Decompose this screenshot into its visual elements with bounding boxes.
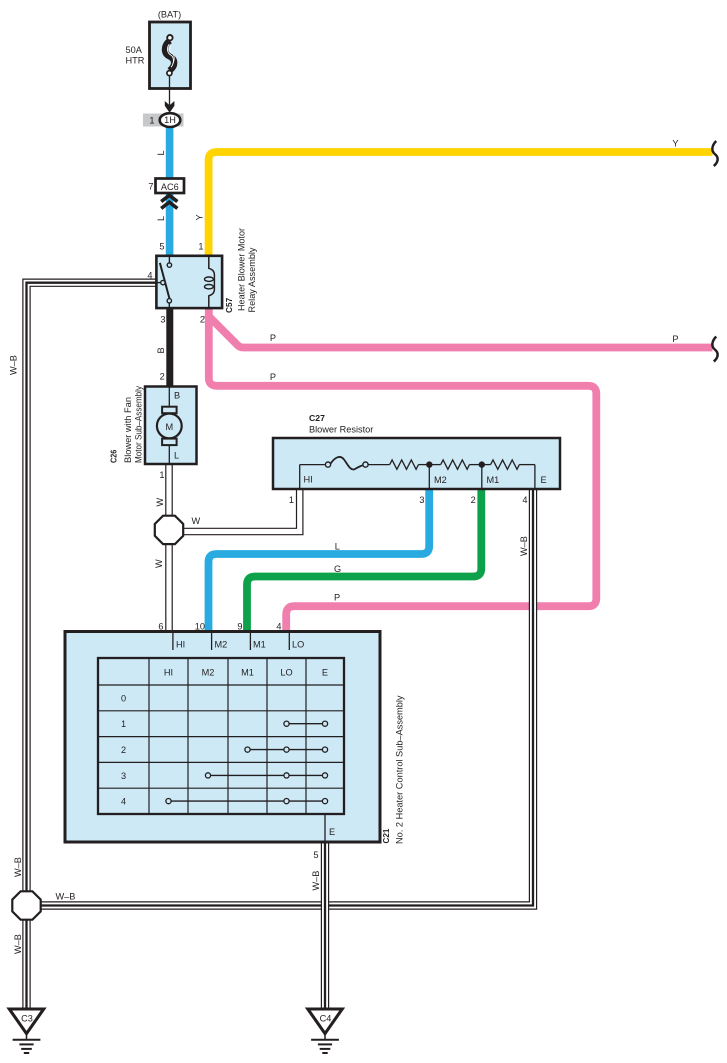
ground C4 bbox=[308, 1009, 342, 1053]
wire W white octagon to resistor HI pin 1 bbox=[183, 487, 303, 535]
svg-text:P: P bbox=[672, 334, 678, 344]
control C21 box bbox=[65, 632, 380, 843]
svg-text:P: P bbox=[270, 333, 276, 343]
switch row 1 contacts LO-E bbox=[284, 721, 328, 726]
svg-text:2: 2 bbox=[160, 372, 165, 382]
label M2 resistor bbox=[434, 475, 447, 485]
wire W-B octagon joint down to ground C3 bbox=[23, 920, 30, 1009]
relay C57 box bbox=[156, 256, 222, 308]
svg-text:G: G bbox=[334, 564, 341, 574]
svg-text:Y: Y bbox=[195, 214, 205, 220]
label 5 relay pin bbox=[159, 242, 164, 252]
label G on green wire bbox=[334, 564, 341, 574]
svg-text:M1: M1 bbox=[241, 668, 254, 678]
svg-text:L: L bbox=[156, 216, 166, 221]
label 4 resistor pin bbox=[522, 495, 527, 505]
svg-text:W–B: W–B bbox=[519, 536, 529, 556]
svg-text:W–B: W–B bbox=[56, 892, 76, 902]
label W right of octagon bbox=[192, 516, 201, 526]
svg-text:HI: HI bbox=[304, 475, 313, 485]
svg-text:L: L bbox=[174, 451, 179, 461]
label 9 control pin bbox=[237, 622, 242, 632]
label L vertical upper bbox=[156, 150, 166, 155]
svg-text:L: L bbox=[156, 150, 166, 155]
svg-text:Blower with Fan: Blower with Fan bbox=[123, 397, 133, 463]
wire W-B from control E pin 5 down to ground C4 bbox=[321, 840, 328, 1009]
label Y on yellow wire right bbox=[672, 139, 678, 149]
svg-text:W: W bbox=[192, 516, 201, 526]
label P on pink branch 1 bbox=[270, 333, 276, 343]
switch row 2 contacts M1-LO-E bbox=[245, 747, 328, 752]
label 1 connector pin bbox=[149, 116, 154, 126]
label Heater Blower Motor Relay Assembly bbox=[237, 228, 258, 313]
label LO control lead bbox=[292, 640, 304, 650]
svg-text:5: 5 bbox=[313, 850, 318, 860]
label 4 relay pin bbox=[147, 271, 152, 281]
label W-B vertical left top bbox=[9, 355, 19, 375]
wire W-B from resistor E down then left to octagon joint bbox=[41, 487, 537, 909]
svg-text:AC6: AC6 bbox=[161, 182, 179, 192]
svg-text:E: E bbox=[322, 668, 328, 678]
svg-text:2: 2 bbox=[121, 745, 126, 755]
connector 1H oval bbox=[160, 113, 181, 127]
svg-text:B: B bbox=[174, 390, 180, 400]
svg-text:5: 5 bbox=[159, 242, 164, 252]
ground C3 bbox=[9, 1009, 43, 1053]
label W-B vertical on C4 wire bbox=[311, 871, 321, 891]
motor symbol M bbox=[157, 387, 182, 465]
svg-text:C4: C4 bbox=[320, 1013, 332, 1023]
label 3 resistor pin bbox=[419, 495, 424, 505]
svg-text:W–B: W–B bbox=[9, 355, 19, 375]
svg-text:P: P bbox=[270, 372, 276, 382]
svg-text:HI: HI bbox=[176, 640, 185, 650]
label P on pink wire right bbox=[672, 334, 678, 344]
label M1 control lead bbox=[253, 640, 266, 650]
connector highlight gray bbox=[143, 114, 184, 127]
table row labels 0-4 bbox=[121, 694, 126, 807]
label E control lead bbox=[329, 827, 335, 837]
switch row 4 contacts HI-LO-E bbox=[166, 799, 328, 804]
label 2 relay pin bbox=[200, 315, 205, 325]
svg-text:4: 4 bbox=[522, 495, 527, 505]
switch row 3 contacts M2-LO-E bbox=[205, 773, 327, 778]
svg-text:Motor Sub–Assembly: Motor Sub–Assembly bbox=[134, 386, 144, 463]
svg-text:2: 2 bbox=[471, 495, 476, 505]
svg-text:3: 3 bbox=[419, 495, 424, 505]
svg-text:LO: LO bbox=[280, 668, 292, 678]
svg-text:No. 2 Heater Control Sub–Assem: No. 2 Heater Control Sub–Assembly bbox=[395, 695, 405, 844]
svg-text:M2: M2 bbox=[215, 640, 228, 650]
control top leads bbox=[173, 633, 289, 650]
svg-text:7: 7 bbox=[148, 182, 153, 192]
label C27 title bbox=[309, 413, 373, 434]
svg-text:M1: M1 bbox=[253, 640, 266, 650]
svg-text:(BAT): (BAT) bbox=[158, 10, 181, 20]
svg-text:W–B: W–B bbox=[311, 871, 321, 891]
svg-text:C21: C21 bbox=[381, 828, 391, 843]
wire fuse to connector 1H bbox=[169, 76, 171, 105]
label P on pink wire to LO bbox=[334, 593, 340, 603]
wire W white motor pin 1 to octagon connector bbox=[166, 462, 172, 516]
octagon connector white wire junction bbox=[155, 516, 183, 544]
svg-text:LO: LO bbox=[292, 640, 304, 650]
svg-text:C26: C26 bbox=[109, 450, 119, 463]
svg-text:W–B: W–B bbox=[13, 934, 23, 954]
svg-text:W–B: W–B bbox=[13, 857, 23, 877]
label 1 relay pin bbox=[198, 242, 203, 252]
svg-text:3: 3 bbox=[160, 315, 165, 325]
label 10 control pin bbox=[195, 622, 205, 632]
wire continuation squiggle pink bbox=[712, 337, 717, 362]
label W vertical below octagon bbox=[154, 559, 164, 568]
svg-text:M: M bbox=[165, 422, 173, 432]
label L motor lead bbox=[174, 451, 179, 461]
svg-text:1: 1 bbox=[289, 495, 294, 505]
arrow into connector 1H bbox=[165, 101, 175, 113]
svg-text:1H: 1H bbox=[164, 115, 176, 125]
label W-B vertical below octagon bbox=[13, 934, 23, 954]
wire continuation squiggle yellow bbox=[712, 141, 717, 166]
label M2 control lead bbox=[215, 640, 228, 650]
wire G green from resistor M1 to control M1 bbox=[247, 487, 481, 632]
svg-text:2: 2 bbox=[200, 315, 205, 325]
wire W white octagon to control HI pin 6 bbox=[166, 545, 172, 633]
label M1 resistor bbox=[487, 475, 500, 485]
wire L blue from resistor M2 to control M2 bbox=[209, 487, 430, 632]
label 3 relay pin bbox=[160, 315, 165, 325]
relay switch contacts bbox=[156, 256, 171, 308]
label L on blue wire bbox=[335, 542, 340, 552]
wire W-B from relay pin 4 down left side to octagon joint bbox=[23, 279, 156, 891]
label L vertical lower bbox=[156, 216, 166, 221]
label B motor lead bbox=[174, 390, 180, 400]
connector AC6 box bbox=[156, 179, 185, 194]
svg-text:E: E bbox=[541, 475, 547, 485]
label 2 resistor pin bbox=[471, 495, 476, 505]
svg-text:4: 4 bbox=[121, 797, 126, 807]
svg-text:1: 1 bbox=[159, 470, 164, 480]
resistor internal circuit bbox=[300, 457, 535, 489]
label W vertical above octagon bbox=[155, 498, 165, 507]
wire Y yellow from relay pin 1 to right edge bbox=[209, 152, 713, 258]
svg-text:C57: C57 bbox=[224, 298, 234, 313]
label 1 motor pin bbox=[159, 470, 164, 480]
label 2 motor pin bbox=[160, 372, 165, 382]
svg-text:Relay Assembly: Relay Assembly bbox=[247, 247, 257, 312]
svg-text:Y: Y bbox=[672, 139, 678, 149]
svg-text:C27: C27 bbox=[309, 413, 325, 423]
svg-text:M2: M2 bbox=[202, 668, 215, 678]
svg-text:M1: M1 bbox=[487, 475, 500, 485]
label C57 bbox=[224, 298, 234, 313]
wire L blue fuse to AC6 to relay pin 5 bbox=[166, 127, 174, 259]
svg-text:HTR: HTR bbox=[126, 56, 145, 66]
table header labels bbox=[164, 668, 328, 678]
svg-text:M2: M2 bbox=[434, 475, 447, 485]
svg-text:L: L bbox=[335, 542, 340, 552]
label P on pink branch 2 bbox=[270, 372, 276, 382]
shield double chevron bbox=[161, 195, 177, 208]
label 5 pin control E bbox=[313, 850, 318, 860]
label C21 bbox=[381, 828, 391, 843]
svg-text:P: P bbox=[334, 593, 340, 603]
relay coil bbox=[205, 256, 215, 308]
label No. 2 Heater Control Sub-Assembly bbox=[395, 695, 405, 844]
label 1 resistor HI pin bbox=[289, 495, 294, 505]
label Y vertical on yellow wire bbox=[195, 214, 205, 220]
label 6 control pin bbox=[158, 622, 163, 632]
octagon joint bottom left bbox=[12, 891, 40, 919]
label 7 AC6 pin bbox=[148, 182, 153, 192]
svg-text:50A: 50A bbox=[126, 45, 143, 55]
svg-text:W: W bbox=[155, 498, 165, 507]
svg-text:Blower Resistor: Blower Resistor bbox=[309, 424, 373, 434]
label HI control lead bbox=[176, 640, 185, 650]
svg-text:0: 0 bbox=[121, 694, 126, 704]
label B vertical on black wire bbox=[156, 347, 166, 353]
label W-B vertical above octagon bbox=[13, 857, 23, 877]
label C26 bbox=[109, 450, 119, 463]
svg-text:Heater Blower Motor: Heater Blower Motor bbox=[237, 228, 247, 311]
svg-text:E: E bbox=[329, 827, 335, 837]
svg-text:1: 1 bbox=[198, 242, 203, 252]
svg-text:HI: HI bbox=[164, 668, 173, 678]
svg-text:1: 1 bbox=[149, 116, 154, 126]
svg-text:1: 1 bbox=[121, 719, 126, 729]
label W-B horizontal near bottom joint bbox=[56, 892, 76, 902]
fuse 50A HTR box bbox=[150, 22, 191, 89]
svg-text:4: 4 bbox=[147, 271, 152, 281]
fuse element symbol bbox=[165, 35, 174, 76]
label Blower with Fan Motor Sub-Assembly bbox=[123, 386, 144, 463]
resistor C27 box bbox=[273, 438, 560, 489]
motor C26 box bbox=[145, 387, 197, 465]
svg-text:3: 3 bbox=[121, 771, 126, 781]
label (BAT) bbox=[158, 10, 181, 20]
svg-text:W: W bbox=[154, 559, 164, 568]
label E resistor bbox=[541, 475, 547, 485]
svg-text:C3: C3 bbox=[21, 1013, 33, 1023]
label W-B vertical on resistor E wire bbox=[519, 536, 529, 556]
wire B black relay pin 3 to motor bbox=[166, 306, 173, 388]
svg-text:B: B bbox=[156, 347, 166, 353]
label 4 control pin bbox=[276, 622, 281, 632]
label HI resistor bbox=[304, 475, 313, 485]
label 50A HTR bbox=[126, 45, 145, 66]
control E lead to bottom bbox=[324, 814, 326, 841]
wire P pink from relay pin 2 branching right and to control LO bbox=[207, 306, 713, 632]
switch table grid bbox=[98, 658, 344, 814]
